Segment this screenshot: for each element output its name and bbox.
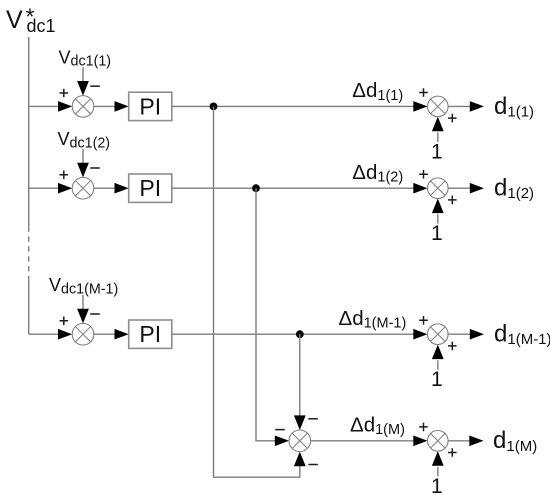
arrow output A3 bbox=[470, 329, 484, 340]
plus sign at S3 bbox=[60, 317, 69, 326]
plus sign top-left at A1 bbox=[419, 88, 428, 97]
wire J3 down to top of S4 bbox=[299, 334, 301, 417]
wire J2 down and across to left of S4 bbox=[256, 188, 276, 441]
wire v input vertical into S3 bbox=[82, 295, 84, 310]
node junction J3 on row3 output bbox=[296, 330, 304, 338]
minus sign bottom at S4 bbox=[308, 464, 318, 466]
output summer A2 bbox=[428, 178, 449, 199]
wire PI2 output to output summer A2 bbox=[172, 187, 414, 189]
wire v input vertical into S1 bbox=[82, 67, 84, 82]
minus sign at S2 bbox=[90, 167, 100, 169]
output summer A1 bbox=[428, 96, 449, 117]
svg-text:1: 1 bbox=[431, 368, 443, 391]
svg-text:1: 1 bbox=[431, 140, 443, 163]
wire A4 output bbox=[448, 440, 469, 442]
summing junction S3 bbox=[72, 323, 94, 345]
svg-text:dc1: dc1 bbox=[27, 16, 56, 36]
wire PI3 output to output summer A3 bbox=[172, 333, 414, 335]
arrow into S3 left bbox=[58, 329, 72, 340]
wire left bus vertical solid upper segment bbox=[28, 37, 30, 227]
plus sign top-left at A2 bbox=[419, 170, 428, 179]
arrow into PI block 3 bbox=[115, 329, 129, 340]
arrow constant 1 into A2 bottom bbox=[432, 199, 444, 214]
svg-text:PI: PI bbox=[139, 321, 161, 347]
arrow v input into S2 top bbox=[77, 163, 89, 178]
wire PI1 output to output summer A1 bbox=[172, 105, 414, 107]
minus sign top at S4 bbox=[308, 418, 318, 420]
plus sign at S1 bbox=[60, 89, 69, 98]
minus sign at S3 bbox=[90, 313, 100, 315]
wire constant 1 into A4 bbox=[437, 467, 439, 477]
arrow constant 1 into A1 bottom bbox=[432, 117, 444, 132]
plus sign bottom-right at A1 bbox=[448, 114, 457, 123]
node junction J1 on row1 output bbox=[210, 103, 218, 111]
wire constant 1 into A3 bbox=[437, 360, 439, 370]
wire A1 output bbox=[448, 105, 470, 107]
wire left bus dashed segment bbox=[28, 227, 30, 277]
wire S3 to PI block bbox=[94, 333, 117, 335]
wire J1 down and across to bottom of S4 bbox=[214, 106, 300, 477]
node junction J2 on row2 output bbox=[252, 184, 260, 192]
arrow J2 feed into S4 left bbox=[275, 436, 289, 447]
arrow into PI block 1 bbox=[115, 101, 129, 112]
summing junction S4 (bottom) bbox=[289, 430, 311, 452]
svg-text:PI: PI bbox=[139, 93, 161, 119]
arrow into A3 left bbox=[413, 329, 427, 340]
arrow into A4 left bbox=[413, 436, 427, 447]
PI block 2 bbox=[129, 174, 172, 202]
svg-text:PI: PI bbox=[139, 175, 161, 201]
arrow J3 feed into S4 top bbox=[294, 415, 306, 430]
summing junction S2 bbox=[72, 177, 94, 199]
arrow constant 1 into A4 bottom bbox=[432, 451, 444, 466]
plus sign bottom-right at A4 bbox=[448, 448, 457, 457]
svg-text:V: V bbox=[6, 6, 23, 34]
plus sign top-left at A4 bbox=[419, 423, 428, 432]
arrow v input into S1 top bbox=[77, 81, 89, 96]
arrow output A2 bbox=[470, 183, 484, 194]
arrow constant 1 into A3 bottom bbox=[432, 345, 444, 360]
plus sign top-left at A3 bbox=[419, 316, 428, 325]
arrow into A2 left bbox=[413, 183, 427, 194]
wire S1 to PI block bbox=[94, 105, 117, 107]
wire A2 output bbox=[448, 187, 470, 189]
wire constant 1 into A1 bbox=[437, 132, 439, 142]
arrow J1 feed into S4 bottom bbox=[294, 452, 306, 467]
output summer A3 bbox=[428, 324, 449, 345]
wire constant 1 into A2 bbox=[437, 214, 439, 224]
arrow into S2 left bbox=[58, 183, 72, 194]
wire bus to summing junction S3 bbox=[29, 333, 61, 335]
minus sign left at S4 bbox=[275, 429, 285, 431]
arrow v input into S3 top bbox=[77, 309, 89, 324]
svg-text:1: 1 bbox=[431, 475, 443, 498]
plus sign bottom-right at A2 bbox=[448, 196, 457, 205]
arrow into PI block 2 bbox=[115, 183, 129, 194]
wire S2 to PI block bbox=[94, 187, 117, 189]
wire bus to summing junction S2 bbox=[29, 187, 61, 189]
arrow output A4 bbox=[469, 436, 483, 447]
wire v input vertical into S2 bbox=[82, 149, 84, 164]
arrow into A1 left bbox=[413, 101, 427, 112]
arrow into S1 left bbox=[58, 101, 72, 112]
arrow output A1 bbox=[470, 101, 484, 112]
label V*dc1 (reference voltage) bbox=[6, 4, 56, 37]
wire bus to summing junction S1 bbox=[29, 105, 61, 107]
plus sign at S2 bbox=[60, 171, 69, 180]
PI block 1 bbox=[129, 92, 172, 120]
output summer A4 bbox=[428, 431, 449, 452]
plus sign bottom-right at A3 bbox=[448, 342, 457, 351]
wire S4 output to A4 bbox=[311, 440, 414, 442]
wire left bus vertical solid lower segment bbox=[28, 276, 30, 334]
wire A3 output bbox=[448, 333, 470, 335]
PI block 3 bbox=[129, 320, 172, 348]
svg-text:1: 1 bbox=[431, 222, 443, 245]
summing junction S1 bbox=[72, 96, 94, 118]
minus sign at S1 bbox=[90, 85, 100, 87]
